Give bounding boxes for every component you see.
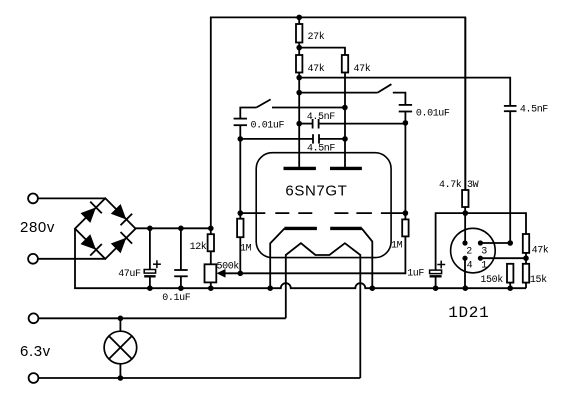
svg-text:0.01uF: 0.01uF: [416, 109, 450, 120]
capacitor C 4.5nF right: [504, 105, 548, 116]
svg-text:47k: 47k: [354, 63, 371, 75]
wire cathode left lead: [270, 228, 284, 288]
svg-text:4.5nF: 4.5nF: [520, 105, 548, 116]
wire 150k leads: [509, 283, 511, 289]
capacitor C 4.5nF lower: [307, 134, 335, 154]
ground rail with hops: [150, 283, 526, 288]
pin 4: [462, 256, 472, 272]
capacitor C 0.1uF: [162, 270, 190, 304]
resistor R 1M right: [391, 219, 409, 251]
wire 47uF top lead: [149, 228, 151, 269]
node 0.01uF left bottom: [238, 136, 244, 142]
node lamp bottom: [118, 375, 124, 381]
node cathode right ground: [370, 285, 376, 291]
wire node to 1uF and 47k chain: [436, 213, 526, 270]
wire 15k to ground rail: [525, 283, 527, 289]
svg-text:4.5nF: 4.5nF: [307, 112, 335, 123]
capacitor C 4.5nF upper: [307, 112, 335, 128]
node lamp top: [118, 316, 124, 322]
node 0.1uF ground: [178, 285, 184, 291]
svg-text:4: 4: [467, 260, 473, 271]
node wiper junction: [238, 271, 244, 277]
capacitor C 0.01uF right: [399, 105, 450, 120]
node pot ground: [208, 285, 214, 291]
node left switch right end: [342, 105, 348, 111]
capacitor C 47uF electrolytic: [118, 260, 161, 280]
pin 3: [478, 240, 487, 257]
node B+ left frame: [208, 226, 214, 232]
terminal 280v bottom: [28, 254, 38, 264]
svg-text:1: 1: [481, 260, 487, 271]
wire 47uF bottom lead: [149, 276, 151, 288]
wire cathode right lead: [362, 228, 373, 288]
svg-text:12k: 12k: [190, 241, 207, 253]
node grid right: [403, 210, 409, 216]
lamp indicator: [104, 331, 137, 364]
resistor R 47k right: [342, 55, 371, 75]
lamp leads: [119, 318, 121, 378]
tube U1 6SN7GT envelope: [256, 153, 391, 258]
cathode bar left: [284, 227, 317, 230]
node 47k bottom: [296, 75, 302, 81]
svg-text:6SN7GT: 6SN7GT: [285, 183, 347, 200]
svg-text:47k: 47k: [532, 244, 549, 256]
wire pin1 to divider: [480, 257, 526, 259]
resistor R 150k: [480, 264, 513, 286]
wire B+ rail: [136, 227, 211, 229]
pin 2: [462, 240, 472, 257]
anode plate right: [330, 167, 362, 170]
node pin3 junction: [507, 240, 513, 246]
wire 1M right bottom lead: [240, 236, 405, 273]
wire 0.1uF bottom lead: [180, 276, 182, 288]
svg-text:0.1uF: 0.1uF: [162, 293, 190, 304]
wire lower 4.5nF right lead: [319, 138, 345, 140]
svg-text:1uF: 1uF: [407, 269, 424, 280]
anode plate left: [284, 167, 316, 170]
switch right: [299, 84, 405, 105]
node 150k ground: [507, 285, 513, 291]
svg-text:15k: 15k: [530, 274, 547, 286]
tube V2 1D21 envelope: [451, 228, 496, 273]
wire to right 47k: [299, 48, 345, 55]
wire 12k to pot: [210, 251, 212, 264]
grid dashed right: [334, 212, 405, 214]
wire 0.01uF right bottom lead: [404, 112, 406, 220]
wire top rail right down (4.7k lead): [464, 17, 466, 190]
resistor R 47k left: [296, 55, 325, 75]
node divider mid: [523, 255, 529, 261]
node cathode left ground: [267, 285, 273, 291]
node grid left: [238, 210, 244, 216]
wire top rail B+: [211, 17, 465, 234]
svg-text:47k: 47k: [308, 63, 325, 75]
svg-text:47uF: 47uF: [118, 269, 141, 280]
diode D4 bottom-right: [111, 232, 132, 253]
svg-text:500k: 500k: [217, 260, 240, 272]
node upper 4.5nF left: [296, 121, 302, 127]
wire pot bottom: [210, 282, 212, 288]
node 1uF ground: [433, 285, 439, 291]
wire coupling lower line: [240, 138, 312, 140]
node 27k/47k junction: [296, 45, 302, 51]
wire 1uF bottom lead: [435, 276, 437, 288]
wire 4.7k bottom to pin2: [464, 207, 466, 243]
node switch line right: [296, 90, 302, 96]
wire 6.3v bottom rail: [38, 377, 360, 379]
svg-text:27k: 27k: [308, 31, 325, 43]
wire 47k right lead down: [344, 73, 346, 169]
svg-text:0.01uF: 0.01uF: [251, 120, 285, 131]
wire coupling upper line: [299, 123, 312, 125]
svg-text:1M: 1M: [391, 241, 403, 252]
wire AC bottom: [38, 258, 105, 260]
switch left: [240, 99, 345, 118]
diode D2 top-right: [111, 204, 132, 225]
wire pin4 to ground: [464, 258, 466, 288]
wire pin3 to 4.5nF node: [480, 242, 510, 244]
svg-text:150k: 150k: [480, 274, 503, 286]
wire to right 4.5nF: [299, 78, 510, 106]
svg-text:1M: 1M: [240, 243, 252, 254]
resistor R 12k: [190, 234, 214, 253]
pin 1: [478, 256, 488, 272]
node 4.7k bottom: [463, 210, 469, 216]
resistor R 4.7k 3W: [439, 179, 479, 207]
wire 6.3v top rail: [38, 317, 285, 319]
wire 1M left bottom lead: [239, 237, 241, 273]
terminal 6.3v bottom: [29, 373, 39, 383]
bridge rectifier diamond: [75, 198, 136, 259]
wire 0.01uF left bottom lead: [239, 125, 241, 219]
wire 47k to 15k: [525, 253, 527, 264]
svg-text:4.7k 3W: 4.7k 3W: [439, 179, 479, 191]
svg-text:1D21: 1D21: [448, 304, 489, 322]
svg-text:6.3v: 6.3v: [20, 343, 51, 360]
wire 4.5nF right bottom lead: [509, 111, 511, 243]
node 0.01uF right bottom: [403, 120, 409, 126]
node lower 4.5nF right: [342, 136, 348, 142]
terminal 280v top: [28, 194, 38, 204]
potentiometer 500k: [205, 260, 240, 282]
node top rail / 27k: [296, 15, 302, 21]
svg-text:2: 2: [466, 246, 472, 257]
resistor R 15k: [523, 264, 547, 286]
wire upper 4.5nF right lead: [319, 123, 406, 125]
wire 27k branch vertical: [298, 17, 300, 168]
node 0.1uF top: [178, 226, 184, 232]
capacitor C 1uF electrolytic: [407, 261, 445, 280]
node 47uF top: [147, 226, 153, 232]
wire bridge minus down: [75, 229, 150, 289]
terminal 6.3v top: [29, 313, 39, 323]
node 47uF ground: [147, 285, 153, 291]
grid dashed left: [239, 212, 312, 214]
cathode bar right: [330, 227, 362, 230]
heater filament: [286, 243, 361, 378]
resistor R 1M left: [237, 219, 252, 255]
diode D1 top-left: [81, 202, 102, 223]
svg-text:280v: 280v: [20, 219, 55, 236]
diode D3 bottom-left: [81, 234, 102, 255]
svg-text:3: 3: [481, 246, 487, 257]
node pin4 ground: [463, 285, 469, 291]
capacitor C 0.01uF left: [234, 119, 285, 132]
resistor R 27k: [296, 24, 325, 43]
wire 0.1uF top lead: [180, 228, 182, 270]
wire AC top: [38, 197, 105, 199]
wiper arrow line: [217, 269, 241, 278]
resistor R 47k right side: [523, 234, 549, 256]
